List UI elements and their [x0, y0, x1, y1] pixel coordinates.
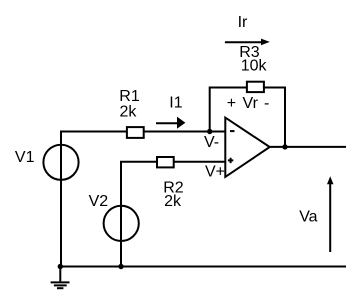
svg-text:2k: 2k — [164, 193, 182, 210]
svg-text:-: - — [264, 95, 269, 112]
svg-text:I1: I1 — [169, 94, 182, 111]
svg-text:10k: 10k — [241, 58, 268, 75]
svg-text:V-: V- — [204, 134, 219, 151]
svg-text:+: + — [227, 95, 236, 112]
svg-text:2k: 2k — [120, 104, 138, 121]
svg-text:Ir: Ir — [238, 14, 248, 31]
svg-text:R1: R1 — [119, 88, 140, 105]
svg-text:V2: V2 — [89, 193, 109, 210]
svg-text:Va: Va — [299, 209, 317, 226]
svg-text:V+: V+ — [205, 164, 225, 181]
svg-text:V1: V1 — [15, 149, 35, 166]
svg-text:Vr: Vr — [243, 95, 259, 112]
